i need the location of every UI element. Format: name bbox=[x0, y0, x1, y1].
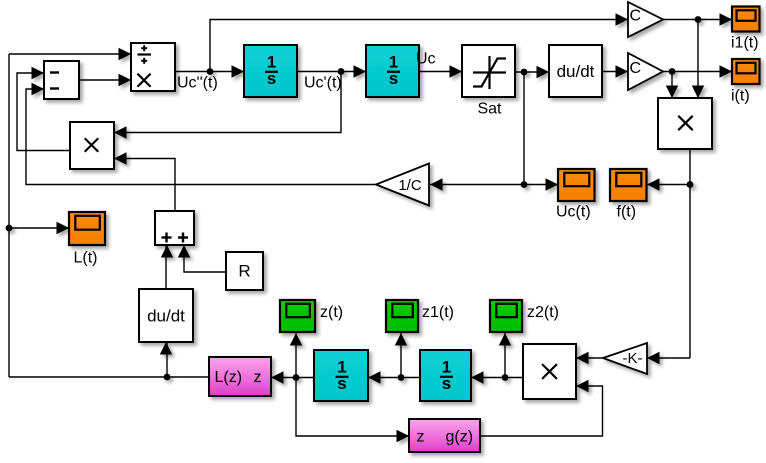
wire to Uc(t) scope bbox=[524, 184, 558, 186]
svg-text:z: z bbox=[417, 429, 425, 446]
wire divide output Uc''(t) to integrator 1 bbox=[175, 71, 244, 73]
wire integrator 1 output Uc'(t) to integrator 2 bbox=[297, 71, 366, 73]
svg-text:du/dt: du/dt bbox=[557, 62, 595, 81]
svg-text:du/dt: du/dt bbox=[147, 306, 185, 325]
node f bbox=[687, 181, 694, 188]
node L(z) out bbox=[164, 374, 171, 381]
svg-text:-K-: -K- bbox=[623, 350, 643, 367]
node Uc bbox=[521, 69, 528, 76]
arrowhead into integrator 4 bbox=[471, 371, 484, 383]
svg-text:g(z): g(z) bbox=[446, 429, 474, 446]
arrowhead into integrator 1 bbox=[232, 65, 245, 77]
arrowhead into du/dt upper bbox=[537, 66, 550, 78]
integrator 1/s block Int2 bbox=[366, 45, 419, 97]
wire to 1/C gain bbox=[430, 184, 524, 186]
wire gain C1 output to i1(t) scope bbox=[663, 19, 732, 21]
wire down to gain -K- bbox=[647, 357, 690, 359]
node i bbox=[669, 68, 676, 75]
product block P1 bbox=[658, 98, 712, 149]
wire integrator 4 output to integrator 3 bbox=[368, 377, 420, 379]
svg-text:Uc''(t): Uc''(t) bbox=[177, 75, 218, 92]
text 1/s Int4 bbox=[440, 358, 453, 394]
arrowhead into sum in1 bbox=[161, 245, 173, 258]
svg-text:R: R bbox=[238, 262, 250, 281]
wire node up to z1(t) scope bbox=[400, 333, 402, 378]
arrowhead into product2 in1 bbox=[114, 126, 127, 138]
wire product1 output down bbox=[689, 149, 691, 358]
wire node down to g(z) input bbox=[296, 378, 409, 437]
svg-text:L(z): L(z) bbox=[215, 369, 243, 386]
arrowhead into gain -K- bbox=[647, 352, 660, 364]
text 1/s Int2 bbox=[387, 53, 400, 89]
integrator 1/s block Int4 bbox=[420, 350, 471, 401]
arrowhead into 1/C gain bbox=[430, 178, 443, 190]
node z1 bbox=[398, 374, 405, 381]
node z bbox=[293, 374, 300, 381]
svg-text:Sat: Sat bbox=[477, 101, 502, 118]
transfer block g(z) bbox=[409, 419, 480, 452]
wire left vertical trunk bbox=[8, 54, 10, 377]
scope z(t) bbox=[280, 300, 315, 332]
text 1/s Int3 bbox=[336, 358, 349, 394]
integrator 1/s block Int3 bbox=[314, 350, 368, 401]
arrowhead into du/dt lower bbox=[160, 342, 172, 355]
wire i1 node down to product1 input 2 bbox=[697, 20, 699, 99]
arrowhead into product1 in1 bbox=[666, 86, 678, 99]
arrowhead into Uc(t) scope bbox=[546, 178, 559, 190]
node Uc'(t) bbox=[338, 68, 345, 75]
sum block Add1 bbox=[155, 211, 194, 245]
wire sum output to product2 input 2 bbox=[114, 159, 175, 212]
svg-text:z(t): z(t) bbox=[320, 304, 343, 321]
wire g(z) output to product3 input 2 bbox=[480, 386, 603, 436]
wire integrator 3 output to L(z) bbox=[271, 377, 314, 379]
scope Uc(t) bbox=[558, 169, 595, 201]
svg-text:Uc(t): Uc(t) bbox=[556, 204, 591, 221]
svg-text:Uc: Uc bbox=[416, 51, 436, 68]
arrowhead into divide in2 bbox=[119, 74, 132, 86]
derivative block du/dt lower bbox=[139, 289, 193, 342]
gain C2 triangle bbox=[628, 53, 663, 90]
wire subtract output to divide input 2 bbox=[79, 79, 131, 81]
arrowhead into subtract in1 bbox=[32, 67, 45, 79]
arrowhead into i(t) scope bbox=[720, 65, 733, 77]
wire i node down to product1 input 1 bbox=[671, 72, 673, 99]
wire node up to z(t) scope bbox=[295, 333, 297, 378]
arrowhead into sum in2 bbox=[178, 245, 190, 258]
wire node to du/dt lower input bbox=[166, 342, 168, 377]
subtract block Sub1 bbox=[44, 61, 79, 99]
scope f(t) bbox=[610, 169, 647, 201]
node z2 bbox=[502, 374, 509, 381]
wire to f(t) scope bbox=[647, 184, 690, 186]
derivative block du/dt upper bbox=[549, 45, 602, 97]
transfer block L(z) bbox=[209, 357, 271, 396]
product block P3 bbox=[523, 344, 576, 399]
svg-text:z1(t): z1(t) bbox=[422, 304, 454, 321]
svg-text:1/C: 1/C bbox=[398, 177, 422, 194]
arrowhead into product2 in2 bbox=[114, 152, 127, 164]
product block P2 bbox=[70, 122, 114, 169]
wire Uc''(t) node up to gain C1 bbox=[210, 20, 628, 72]
arrowhead into z(t) scope bbox=[290, 333, 302, 346]
scope i(t) bbox=[732, 59, 760, 84]
divide block Div1 bbox=[131, 43, 175, 91]
scope i1(t) bbox=[732, 7, 760, 32]
wire du/dt lower output to sum bbox=[165, 245, 167, 289]
svg-text:Uc'(t): Uc'(t) bbox=[304, 75, 342, 92]
svg-text:L(t): L(t) bbox=[74, 250, 98, 267]
node Uc feedback bbox=[521, 181, 528, 188]
wire node up to z2(t) scope bbox=[504, 333, 506, 378]
arrowhead into L(t) scope bbox=[57, 222, 70, 234]
integrator 1/s block Int1 bbox=[244, 45, 297, 97]
arrowhead into g(z) bbox=[397, 430, 410, 442]
arrowhead into product1 in2 bbox=[692, 86, 704, 99]
arrowhead into z1(t) scope bbox=[395, 333, 407, 346]
arrowhead into L(z) bbox=[271, 371, 284, 383]
svg-text:z: z bbox=[254, 369, 262, 386]
wire saturation output to du/dt upper bbox=[515, 71, 549, 73]
scope z1(t) bbox=[386, 300, 418, 332]
wire gain C2 output to i(t) scope bbox=[663, 71, 732, 73]
wire L(z) feedback to divide input 1 bbox=[9, 53, 131, 55]
text 1/s Int1 bbox=[265, 53, 278, 89]
wire product3 output to integrator 4 bbox=[471, 377, 523, 379]
svg-text:s: s bbox=[442, 374, 451, 393]
gain block R bbox=[226, 252, 263, 290]
arrowhead into f(t) scope bbox=[647, 178, 660, 190]
arrowhead into product3 in1 bbox=[576, 352, 589, 364]
node i1 bbox=[695, 16, 702, 23]
wire integrator 2 output Uc to saturation bbox=[419, 71, 462, 73]
wire 1/C output to subtract input 2 bbox=[26, 89, 376, 185]
arrowhead into saturation bbox=[450, 65, 463, 77]
wire to L(t) scope bbox=[9, 227, 69, 229]
wire gain -K- output to product3 input 1 bbox=[576, 357, 603, 359]
node L trunk bbox=[6, 225, 13, 232]
arrowhead into integrator 2 bbox=[354, 65, 367, 77]
svg-text:s: s bbox=[389, 69, 398, 88]
wire du/dt upper output to gain C2 bbox=[602, 71, 628, 73]
arrowhead into product3 in2 bbox=[576, 380, 589, 392]
wire product2 output to subtract input 1 bbox=[17, 73, 70, 151]
arrowhead into gain C2 bbox=[616, 65, 629, 77]
scope z2(t) bbox=[490, 300, 522, 332]
scope L(t) bbox=[69, 212, 105, 245]
gain -K- triangle bbox=[603, 343, 647, 374]
wire Uc'(t) node to product2 input 1 bbox=[114, 72, 341, 133]
gain C1 triangle bbox=[628, 2, 663, 37]
arrowhead into gain C1 bbox=[616, 13, 629, 25]
wire R output to sum input 2 bbox=[184, 245, 226, 272]
svg-text:i(t): i(t) bbox=[731, 88, 750, 105]
svg-text:z2(t): z2(t) bbox=[527, 304, 559, 321]
arrowhead into divide in1 bbox=[119, 48, 132, 60]
svg-text:i1(t): i1(t) bbox=[731, 35, 759, 52]
gain 1/C triangle bbox=[376, 164, 429, 206]
arrowhead into z2(t) scope bbox=[499, 333, 511, 346]
arrowhead into integrator 3 bbox=[368, 371, 381, 383]
svg-text:f(t): f(t) bbox=[617, 204, 637, 221]
wire L(z) output to left trunk bbox=[9, 376, 209, 378]
saturation block Sat bbox=[462, 45, 515, 97]
arrowhead into subtract in2 bbox=[32, 83, 45, 95]
svg-text:s: s bbox=[337, 374, 346, 393]
arrowhead into i1(t) scope bbox=[720, 13, 733, 25]
svg-text:C: C bbox=[630, 60, 642, 77]
node Uc''(t) bbox=[207, 68, 214, 75]
svg-text:C: C bbox=[630, 8, 642, 25]
svg-text:s: s bbox=[267, 69, 276, 88]
wire Uc node down bbox=[523, 72, 525, 185]
